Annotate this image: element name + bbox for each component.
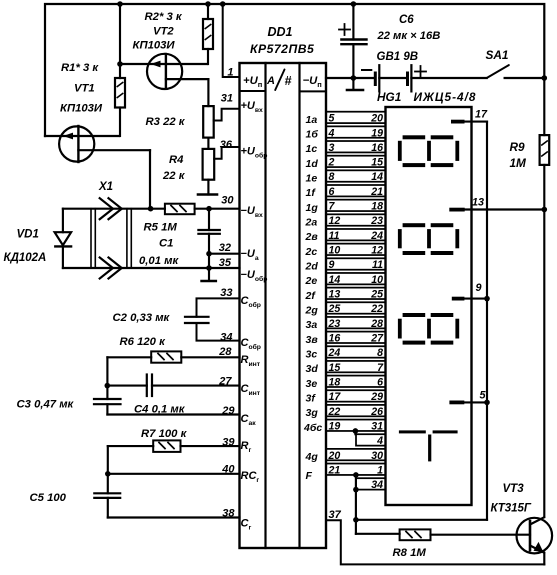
svg-text:C5 100: C5 100 <box>30 492 67 504</box>
svg-text:R7 100 к: R7 100 к <box>141 428 188 440</box>
svg-text:31: 31 <box>371 420 383 432</box>
svg-text:14: 14 <box>329 274 341 286</box>
svg-text:ИЖЦ5-4/8: ИЖЦ5-4/8 <box>414 90 477 104</box>
svg-text:29: 29 <box>221 405 235 417</box>
svg-text:2c: 2c <box>305 246 318 258</box>
svg-text:КП103И: КП103И <box>133 40 176 52</box>
svg-text:15: 15 <box>371 157 384 169</box>
svg-text:21: 21 <box>328 464 341 476</box>
svg-text:DD1: DD1 <box>267 25 292 39</box>
svg-text:R5 1М: R5 1М <box>144 222 178 234</box>
svg-text:33: 33 <box>220 287 232 299</box>
svg-text:VT3: VT3 <box>503 483 525 495</box>
svg-text:22 мк × 16В: 22 мк × 16В <box>377 30 441 42</box>
svg-text:28: 28 <box>370 318 383 330</box>
svg-text:3: 3 <box>329 142 335 154</box>
svg-text:VD1: VD1 <box>17 229 39 241</box>
svg-text:1a: 1a <box>306 114 318 126</box>
svg-text:2f: 2f <box>305 290 317 302</box>
svg-text:VT2: VT2 <box>153 26 174 38</box>
svg-text:37: 37 <box>329 509 342 521</box>
svg-text:9: 9 <box>329 259 335 271</box>
svg-text:C6: C6 <box>399 14 414 26</box>
svg-text:22: 22 <box>328 406 341 418</box>
svg-text:22: 22 <box>370 303 383 315</box>
svg-text:КТ315Г: КТ315Г <box>491 503 532 515</box>
svg-text:11: 11 <box>372 259 383 271</box>
svg-text:C4 0,1 мк: C4 0,1 мк <box>134 404 186 416</box>
svg-text:32: 32 <box>219 242 231 254</box>
svg-text:22 к: 22 к <box>162 170 186 182</box>
svg-text:12: 12 <box>329 215 341 227</box>
svg-text:R4: R4 <box>169 154 184 166</box>
svg-text:24: 24 <box>328 347 341 359</box>
svg-text:21: 21 <box>370 186 383 198</box>
svg-text:26: 26 <box>370 406 383 418</box>
svg-text:16: 16 <box>329 333 341 345</box>
svg-text:23: 23 <box>370 215 383 227</box>
svg-text:12: 12 <box>371 245 383 257</box>
svg-text:17: 17 <box>329 391 342 403</box>
svg-text:36: 36 <box>220 139 233 151</box>
svg-text:9: 9 <box>476 282 482 294</box>
svg-text:8: 8 <box>329 171 335 183</box>
svg-text:F: F <box>306 470 313 482</box>
svg-text:25: 25 <box>328 303 342 315</box>
svg-text:КР572ПВ5: КР572ПВ5 <box>250 42 314 56</box>
svg-text:19: 19 <box>329 420 341 432</box>
svg-text:30: 30 <box>221 195 234 207</box>
svg-text:24: 24 <box>370 230 383 242</box>
svg-text:VT1: VT1 <box>74 83 95 95</box>
svg-text:30: 30 <box>371 450 383 462</box>
svg-text:14: 14 <box>371 171 383 183</box>
svg-text:10: 10 <box>329 245 341 257</box>
svg-text:4g: 4g <box>305 451 319 463</box>
svg-text:28: 28 <box>218 346 232 358</box>
svg-text:23: 23 <box>328 318 341 330</box>
svg-text:16: 16 <box>371 142 383 154</box>
svg-text:38: 38 <box>222 508 235 520</box>
svg-text:17: 17 <box>475 109 488 121</box>
svg-text:3a: 3a <box>306 319 318 331</box>
svg-text:2e: 2e <box>305 275 318 287</box>
svg-text:8: 8 <box>377 347 383 359</box>
svg-text:29: 29 <box>370 391 383 403</box>
svg-text:1f: 1f <box>306 187 317 199</box>
svg-text:C3 0,47 мк: C3 0,47 мк <box>17 399 75 411</box>
svg-text:R6 120 к: R6 120 к <box>120 336 167 348</box>
svg-text:11: 11 <box>329 230 340 242</box>
svg-text:3d: 3d <box>306 363 319 375</box>
svg-text:13: 13 <box>472 197 484 209</box>
svg-text:R9: R9 <box>510 140 526 154</box>
svg-text:39: 39 <box>222 437 235 449</box>
svg-text:C2 0,33 мк: C2 0,33 мк <box>113 312 171 324</box>
svg-text:2в: 2в <box>305 231 319 243</box>
svg-text:13: 13 <box>329 289 341 301</box>
svg-text:1e: 1e <box>306 173 318 185</box>
svg-text:18: 18 <box>371 201 383 213</box>
svg-text:#: # <box>285 74 292 88</box>
svg-text:6: 6 <box>329 186 335 198</box>
svg-text:4: 4 <box>328 127 335 139</box>
svg-text:GB1 9В: GB1 9В <box>377 51 419 63</box>
svg-text:А: А <box>266 75 275 87</box>
svg-text:КП103И: КП103И <box>60 103 103 115</box>
svg-text:3g: 3g <box>306 407 319 419</box>
svg-text:34: 34 <box>371 479 383 491</box>
svg-text:27: 27 <box>218 376 232 388</box>
svg-text:1d: 1d <box>306 158 319 170</box>
svg-text:0,01 мк: 0,01 мк <box>139 255 179 267</box>
svg-text:1: 1 <box>227 67 233 79</box>
svg-text:2a: 2a <box>305 217 318 229</box>
svg-text:6: 6 <box>377 376 383 388</box>
svg-text:20: 20 <box>328 450 341 462</box>
svg-text:40: 40 <box>221 464 235 476</box>
svg-text:3f: 3f <box>306 392 317 404</box>
svg-text:HG1: HG1 <box>377 90 401 104</box>
svg-text:3c: 3c <box>306 348 318 360</box>
svg-text:2g: 2g <box>305 304 319 316</box>
svg-text:C1: C1 <box>159 238 173 250</box>
svg-text:X1: X1 <box>98 181 113 193</box>
svg-text:SA1: SA1 <box>486 48 509 62</box>
svg-text:15: 15 <box>329 362 342 374</box>
svg-text:5: 5 <box>480 390 487 402</box>
svg-text:18: 18 <box>329 376 341 388</box>
svg-text:2d: 2d <box>305 261 319 273</box>
svg-text:1б: 1б <box>306 129 319 141</box>
svg-text:34: 34 <box>220 332 232 344</box>
svg-text:10: 10 <box>371 274 383 286</box>
svg-text:31: 31 <box>221 93 233 105</box>
svg-text:19: 19 <box>371 127 383 139</box>
svg-text:3в: 3в <box>306 334 319 346</box>
svg-text:4бс: 4бс <box>303 422 322 434</box>
svg-text:R3 22 к: R3 22 к <box>146 116 186 128</box>
svg-text:R8 1М: R8 1М <box>393 547 427 559</box>
svg-text:25: 25 <box>370 289 384 301</box>
svg-text:20: 20 <box>370 113 383 125</box>
svg-text:2: 2 <box>328 157 335 169</box>
svg-text:КД102А: КД102А <box>4 252 47 264</box>
svg-text:4: 4 <box>376 435 383 447</box>
svg-text:35: 35 <box>219 257 232 269</box>
svg-text:27: 27 <box>370 333 384 345</box>
svg-text:1: 1 <box>377 464 383 476</box>
svg-text:1g: 1g <box>306 202 319 214</box>
svg-text:3e: 3e <box>306 378 318 390</box>
svg-text:R1* 3 к: R1* 3 к <box>61 62 99 74</box>
svg-text:R2* 3 к: R2* 3 к <box>145 11 183 23</box>
svg-text:1c: 1c <box>306 143 318 155</box>
svg-text:1М: 1М <box>510 156 528 170</box>
